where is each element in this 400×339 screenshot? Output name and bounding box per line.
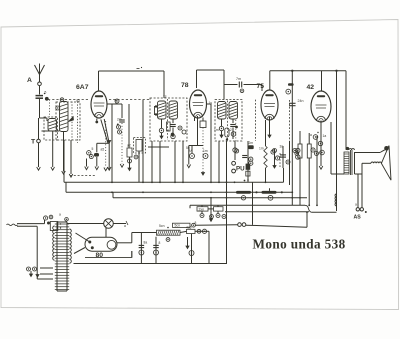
svg-text:1m: 1m: [259, 147, 264, 151]
svg-text:78: 78: [181, 82, 189, 89]
svg-text:PU: PU: [236, 166, 245, 173]
svg-text:6A7: 6A7: [76, 84, 89, 91]
svg-text:4a5: 4a5: [186, 225, 192, 229]
svg-text:a: a: [195, 221, 197, 225]
svg-text:75: 75: [257, 83, 265, 90]
svg-text:1m: 1m: [203, 149, 208, 153]
svg-text:1s: 1s: [209, 101, 213, 105]
svg-text:5: 5: [45, 91, 47, 95]
svg-text:7s: 7s: [163, 95, 167, 99]
svg-text:8: 8: [159, 241, 161, 245]
svg-text:Mono unda 538: Mono unda 538: [253, 237, 346, 252]
svg-text:A: A: [27, 77, 32, 84]
svg-text:5cn: 5cn: [175, 224, 181, 228]
svg-text:3s: 3s: [280, 145, 284, 149]
svg-text:a: a: [168, 129, 170, 133]
svg-text:1a: 1a: [323, 134, 327, 138]
svg-text:50: 50: [186, 146, 190, 150]
svg-text:a: a: [124, 224, 126, 228]
svg-text:a: a: [355, 203, 357, 207]
svg-text:AS: AS: [354, 215, 362, 221]
svg-text:2m: 2m: [117, 118, 122, 122]
svg-text:a5: a5: [101, 148, 105, 152]
svg-text:2m: 2m: [249, 141, 254, 145]
svg-text:5: 5: [92, 147, 94, 151]
svg-text:2xn: 2xn: [199, 207, 205, 211]
svg-text:a3: a3: [76, 99, 80, 103]
svg-text:a2: a2: [228, 128, 232, 132]
svg-text:24n: 24n: [298, 99, 304, 103]
svg-text:a: a: [310, 133, 312, 137]
svg-text:5cn: 5cn: [159, 224, 165, 228]
svg-text:80: 80: [96, 252, 104, 259]
svg-text:a2: a2: [127, 144, 131, 148]
svg-text:8a: 8a: [144, 241, 148, 245]
svg-text:1m: 1m: [214, 128, 219, 132]
svg-text:42: 42: [307, 84, 315, 91]
svg-text:a: a: [59, 213, 61, 217]
svg-text:7m: 7m: [236, 77, 241, 81]
